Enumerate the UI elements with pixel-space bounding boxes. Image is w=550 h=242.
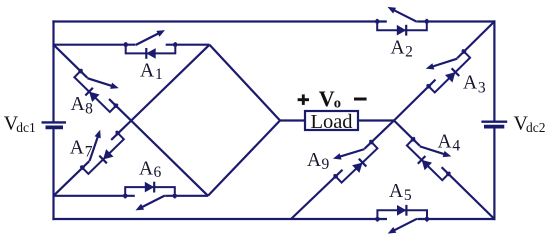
svg-text:dc2: dc2 bbox=[526, 120, 546, 135]
svg-text:A: A bbox=[70, 137, 84, 158]
svg-text:Load: Load bbox=[310, 111, 352, 133]
svg-text:A: A bbox=[391, 38, 405, 59]
svg-text:o: o bbox=[334, 95, 341, 111]
svg-text:dc1: dc1 bbox=[16, 120, 36, 135]
svg-text:A: A bbox=[139, 159, 153, 180]
svg-text:3: 3 bbox=[478, 79, 486, 96]
svg-text:A: A bbox=[438, 131, 452, 152]
svg-text:9: 9 bbox=[322, 156, 330, 173]
svg-text:A: A bbox=[71, 94, 85, 115]
svg-text:2: 2 bbox=[405, 44, 413, 61]
svg-text:8: 8 bbox=[85, 101, 93, 118]
svg-text:7: 7 bbox=[85, 144, 93, 161]
svg-text:A: A bbox=[463, 73, 477, 94]
svg-text:V: V bbox=[319, 86, 335, 111]
svg-text:6: 6 bbox=[154, 164, 162, 181]
svg-text:A: A bbox=[389, 181, 403, 202]
svg-text:A: A bbox=[307, 150, 321, 171]
svg-text:A: A bbox=[140, 61, 154, 82]
svg-text:1: 1 bbox=[155, 66, 163, 83]
svg-text:5: 5 bbox=[404, 187, 412, 204]
svg-text:4: 4 bbox=[452, 137, 460, 154]
